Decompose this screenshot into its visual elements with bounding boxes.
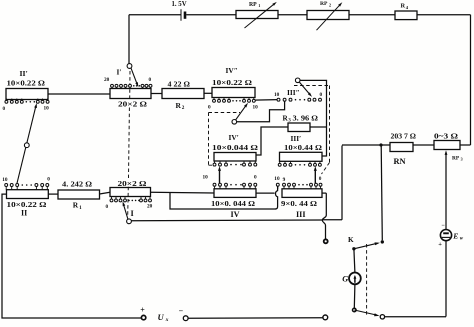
svg-text:IV: IV	[231, 210, 240, 219]
svg-text:10: 10	[253, 104, 259, 110]
svg-text:20×2 Ω: 20×2 Ω	[118, 179, 147, 188]
svg-text:R: R	[401, 3, 406, 10]
svg-text:II: II	[21, 209, 27, 218]
svg-text:E: E	[452, 231, 458, 240]
svg-text:9: 9	[283, 177, 286, 183]
svg-text:3. 96 Ω: 3. 96 Ω	[293, 113, 319, 122]
svg-text:II′: II′	[20, 69, 28, 78]
svg-text:20×2 Ω: 20×2 Ω	[118, 99, 147, 108]
svg-text:RP: RP	[320, 1, 328, 7]
svg-text:IV″: IV″	[226, 66, 238, 75]
svg-text:1: 1	[79, 205, 82, 211]
svg-text:RP: RP	[249, 2, 257, 8]
svg-text:10×0.44 Ω: 10×0.44 Ω	[284, 143, 322, 152]
svg-text:10×0.22 Ω: 10×0.22 Ω	[212, 78, 252, 87]
svg-text:−: −	[442, 223, 446, 229]
svg-text:I′: I′	[117, 68, 122, 77]
svg-text:10: 10	[44, 106, 50, 112]
svg-text:U: U	[158, 312, 165, 322]
svg-text:10: 10	[2, 177, 8, 183]
svg-text:K: K	[348, 236, 354, 244]
svg-text:IV′: IV′	[229, 133, 239, 142]
svg-text:I: I	[131, 209, 134, 218]
svg-text:10×0. 044 Ω: 10×0. 044 Ω	[211, 199, 255, 208]
svg-text:III″: III″	[287, 88, 300, 97]
svg-text:0: 0	[320, 92, 323, 98]
svg-text:4 22 Ω: 4 22 Ω	[168, 79, 191, 88]
svg-text:0: 0	[208, 104, 211, 110]
svg-text:0: 0	[3, 106, 6, 112]
svg-text:x: x	[165, 317, 169, 323]
svg-text:R: R	[73, 200, 79, 209]
svg-text:0: 0	[106, 204, 109, 210]
svg-text:0: 0	[47, 177, 50, 183]
svg-text:4: 4	[406, 5, 409, 10]
svg-text:RN: RN	[394, 157, 406, 166]
svg-text:RP: RP	[452, 155, 460, 161]
svg-text:0: 0	[254, 174, 257, 180]
svg-text:10: 10	[274, 92, 280, 98]
svg-text:0~3 Ω: 0~3 Ω	[434, 133, 459, 140]
svg-text:2: 2	[182, 105, 185, 111]
svg-text:10: 10	[274, 176, 280, 182]
svg-text:−: −	[179, 306, 184, 315]
svg-text:10: 10	[203, 174, 209, 180]
svg-text:2: 2	[329, 3, 331, 8]
svg-text:1: 1	[258, 3, 260, 8]
svg-text:20: 20	[147, 203, 153, 209]
svg-text:0: 0	[149, 77, 152, 83]
svg-text:3: 3	[461, 157, 463, 162]
svg-text:+: +	[140, 306, 145, 315]
svg-text:9×0. 44 Ω: 9×0. 44 Ω	[281, 199, 317, 208]
svg-text:20: 20	[104, 77, 110, 83]
svg-text:4. 242 Ω: 4. 242 Ω	[62, 179, 92, 188]
svg-text:III: III	[296, 210, 306, 219]
svg-text:R: R	[176, 101, 182, 110]
svg-text:G: G	[342, 274, 348, 283]
svg-text:10×0.044 Ω: 10×0.044 Ω	[212, 143, 258, 152]
svg-text:+: +	[438, 241, 442, 248]
svg-text:1. 5V: 1. 5V	[172, 1, 187, 8]
svg-text:203 7 Ω: 203 7 Ω	[391, 133, 417, 140]
svg-text:10×0.22 Ω: 10×0.22 Ω	[7, 79, 46, 88]
svg-text:w: w	[460, 237, 464, 242]
svg-text:0: 0	[319, 176, 322, 182]
